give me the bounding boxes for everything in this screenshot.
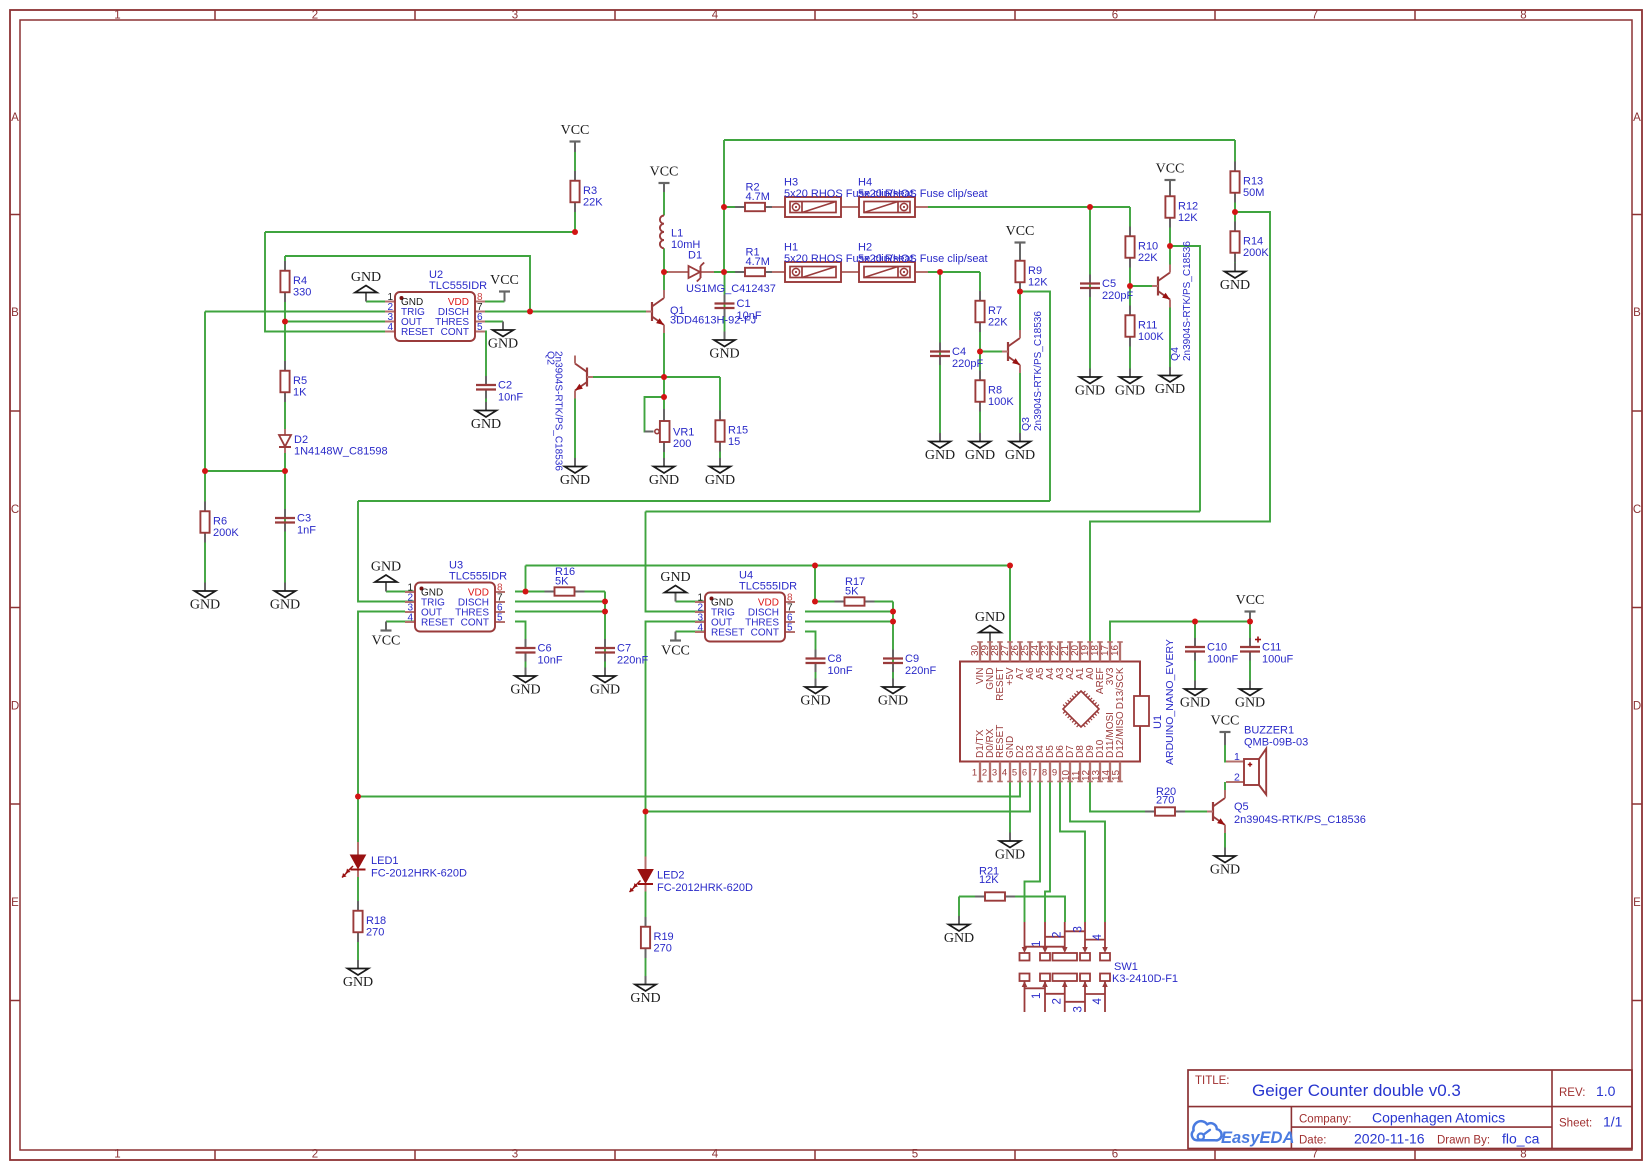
wire — [719, 377, 721, 458]
svg-text:100K: 100K — [988, 396, 1014, 408]
svg-text:C: C — [11, 504, 19, 516]
svg-text:C5: C5 — [1102, 278, 1116, 290]
wire — [815, 668, 817, 679]
power VCC — [372, 622, 401, 649]
svg-text:VCC: VCC — [661, 644, 690, 659]
svg-text:VCC: VCC — [1236, 593, 1265, 608]
svg-text:2: 2 — [1052, 998, 1064, 1004]
svg-text:US1MG_C412437: US1MG_C412437 — [686, 283, 776, 295]
pin 5 — [1019, 762, 1021, 782]
capacitor C1 — [715, 295, 762, 323]
power VCC — [1006, 224, 1035, 252]
pin 20 — [1079, 642, 1081, 662]
svg-text:VR1: VR1 — [673, 427, 694, 439]
svg-text:1: 1 — [114, 1149, 120, 1161]
pin 2 — [989, 762, 991, 782]
ground — [705, 458, 735, 488]
ground — [560, 458, 590, 488]
transistor Q3 — [1002, 311, 1044, 431]
wire — [1090, 212, 1270, 643]
transistor Q2 — [545, 351, 594, 471]
svg-text:GND: GND — [1235, 696, 1265, 711]
power VCC — [561, 123, 590, 152]
svg-text:QMB-09B-03: QMB-09B-03 — [1244, 737, 1308, 749]
capacitor C2 — [476, 376, 523, 404]
wire — [358, 782, 1020, 797]
resistor R9 — [1015, 251, 1048, 292]
junction — [1017, 289, 1023, 295]
wire — [664, 376, 720, 378]
LED LED1 — [342, 842, 467, 880]
transistor Q4 — [1152, 241, 1193, 361]
wire — [841, 206, 859, 208]
wire — [1169, 300, 1171, 368]
junction — [812, 563, 818, 569]
svg-text:R10: R10 — [1138, 241, 1158, 253]
555 timer U3 — [405, 560, 507, 632]
pin 23 — [1049, 642, 1051, 662]
svg-text:GND: GND — [630, 991, 660, 1006]
switch SW1 K3-2410D-F1 — [1020, 922, 1179, 1013]
svg-text:C7: C7 — [617, 643, 631, 655]
svg-text:2n3904S-RTK/PS_C18536: 2n3904S-RTK/PS_C18536 — [1234, 814, 1366, 826]
capacitor C11 — [1240, 637, 1293, 666]
svg-text:Copenhagen Atomics: Copenhagen Atomics — [1372, 1110, 1505, 1126]
junction — [572, 229, 578, 235]
svg-text:1/1: 1/1 — [1603, 1114, 1623, 1130]
wire — [285, 256, 530, 312]
svg-text:VCC: VCC — [561, 123, 590, 138]
wire — [663, 272, 665, 298]
wire — [485, 332, 486, 377]
wire — [676, 631, 706, 633]
svg-text:R12: R12 — [1178, 201, 1198, 213]
svg-text:220pF: 220pF — [1102, 290, 1133, 302]
wire — [815, 601, 893, 603]
ground — [800, 679, 830, 709]
svg-text:R14: R14 — [1243, 236, 1263, 248]
svg-text:1K: 1K — [293, 387, 307, 399]
svg-text:GND: GND — [1155, 382, 1185, 397]
ground — [1235, 681, 1265, 711]
svg-text:1: 1 — [1234, 751, 1240, 763]
svg-text:GND: GND — [190, 598, 220, 613]
svg-text:GND: GND — [660, 570, 690, 585]
svg-text:R18: R18 — [366, 915, 386, 927]
resistor R17 — [835, 576, 875, 606]
ground — [371, 560, 401, 592]
resistor R16 — [545, 566, 585, 596]
EasyEDA logo — [1192, 1121, 1295, 1147]
svg-text:Q3: Q3 — [1020, 417, 1032, 431]
wire — [1129, 207, 1131, 369]
svg-text:GND: GND — [944, 931, 974, 946]
svg-text:4: 4 — [1092, 934, 1104, 941]
svg-text:3: 3 — [512, 10, 518, 22]
ground — [190, 583, 220, 613]
wire — [663, 248, 665, 272]
svg-text:Geiger Counter double v0.3: Geiger Counter double v0.3 — [1252, 1081, 1461, 1100]
ground — [709, 332, 739, 362]
wire — [980, 351, 1008, 353]
svg-text:12K: 12K — [1028, 277, 1048, 289]
wire — [285, 321, 385, 323]
svg-text:220pF: 220pF — [952, 358, 983, 370]
pin 22 — [1059, 642, 1061, 662]
svg-text:A: A — [11, 112, 19, 124]
junction — [661, 269, 667, 275]
junction — [890, 609, 896, 615]
svg-text:GND: GND — [1220, 278, 1250, 293]
resistor R19 — [641, 917, 674, 958]
svg-text:2: 2 — [982, 768, 987, 779]
pin 10 — [1069, 762, 1071, 782]
svg-text:REV:: REV: — [1559, 1087, 1585, 1099]
svg-text:3: 3 — [512, 1149, 518, 1161]
ground — [1180, 681, 1210, 711]
wire — [525, 566, 527, 592]
555 timer U2 — [385, 269, 487, 341]
svg-text:2020-11-16: 2020-11-16 — [1354, 1131, 1425, 1147]
ground — [944, 916, 974, 946]
resistor R3 — [570, 171, 603, 212]
pin 25 — [1029, 642, 1031, 662]
wire — [386, 621, 415, 623]
svg-text:GND: GND — [1075, 384, 1105, 399]
pin 24 — [1039, 642, 1041, 662]
ground — [878, 679, 908, 709]
wire — [1060, 782, 1085, 923]
pin 28 — [999, 642, 1001, 662]
wire — [205, 311, 385, 313]
pin 18 — [1099, 642, 1101, 662]
svg-text:VCC: VCC — [372, 634, 401, 649]
wire — [366, 301, 395, 303]
pin 8 — [1049, 762, 1051, 782]
fuse holder H2 — [846, 242, 988, 283]
wire — [1249, 652, 1251, 681]
svg-text:TITLE:: TITLE: — [1195, 1075, 1230, 1087]
svg-text:100nF: 100nF — [1207, 654, 1238, 666]
wire — [204, 312, 206, 583]
svg-text:U1: U1 — [1152, 715, 1164, 729]
junction — [202, 468, 208, 474]
svg-text:C4: C4 — [952, 346, 966, 358]
svg-text:E: E — [11, 897, 19, 909]
capacitor C4 — [930, 343, 983, 371]
wire — [663, 452, 665, 458]
resistor R20 — [1145, 786, 1185, 816]
wire — [1170, 246, 1200, 512]
pin 27 — [1009, 642, 1011, 662]
ground — [351, 270, 381, 302]
inductor L1 — [660, 216, 700, 252]
svg-text:BUZZER1: BUZZER1 — [1244, 725, 1294, 737]
svg-text:C9: C9 — [905, 653, 919, 665]
LED LED2 — [630, 857, 754, 895]
svg-text:GND: GND — [471, 417, 501, 432]
svg-text:C3: C3 — [297, 513, 311, 525]
ground — [343, 960, 373, 990]
wire — [724, 272, 726, 332]
svg-text:2: 2 — [312, 1149, 318, 1161]
wire — [1224, 825, 1226, 848]
resistor R5 — [280, 361, 307, 402]
junction — [1192, 619, 1198, 625]
svg-text:5: 5 — [1012, 768, 1017, 779]
wire — [574, 359, 576, 364]
ground — [590, 668, 620, 698]
junction — [643, 809, 649, 815]
wire — [386, 591, 415, 593]
transistor Q1 — [646, 290, 756, 333]
wire — [485, 311, 652, 313]
resistor R2 — [735, 182, 775, 212]
capacitor C9 — [883, 650, 936, 678]
svg-text:D: D — [11, 701, 19, 713]
svg-text:270: 270 — [654, 943, 672, 955]
svg-text:220nF: 220nF — [617, 655, 648, 667]
svg-text:GND: GND — [351, 270, 381, 285]
fuse holder H3 — [772, 177, 914, 218]
svg-text:GND: GND — [270, 598, 300, 613]
svg-text:6: 6 — [1112, 10, 1118, 22]
wire — [1234, 140, 1236, 263]
wire — [485, 321, 503, 323]
svg-text:R4: R4 — [293, 275, 307, 287]
svg-text:3: 3 — [1073, 1006, 1085, 1012]
wire — [724, 206, 785, 208]
ground — [1155, 367, 1185, 397]
svg-text:VCC: VCC — [1006, 224, 1035, 239]
svg-text:LED2: LED2 — [657, 870, 685, 882]
svg-text:22K: 22K — [583, 197, 603, 209]
svg-text:SW1: SW1 — [1114, 961, 1138, 973]
svg-text:Q5: Q5 — [1234, 801, 1249, 813]
wire — [805, 632, 816, 651]
svg-text:B: B — [11, 307, 19, 319]
svg-text:Q4: Q4 — [1169, 347, 1181, 361]
wire — [485, 301, 505, 303]
fuse holder H4 — [846, 177, 988, 218]
svg-text:16: 16 — [1110, 644, 1121, 656]
svg-text:22K: 22K — [988, 317, 1008, 329]
svg-text:5: 5 — [497, 613, 503, 624]
fuse holder H1 — [772, 242, 914, 283]
svg-text:4: 4 — [697, 623, 703, 634]
pin 12 — [1089, 762, 1091, 782]
svg-text:6: 6 — [1022, 768, 1027, 779]
svg-text:GND: GND — [1180, 696, 1210, 711]
svg-text:3: 3 — [1073, 926, 1085, 932]
resistor R14 — [1230, 222, 1269, 263]
svg-text:H3: H3 — [784, 177, 798, 189]
svg-text:CONT: CONT — [441, 327, 469, 338]
junction — [1087, 204, 1093, 210]
svg-text:A: A — [1633, 112, 1641, 124]
junction — [812, 599, 818, 605]
svg-text:R8: R8 — [988, 385, 1002, 397]
svg-text:8: 8 — [1520, 1149, 1526, 1161]
wire — [676, 601, 706, 603]
svg-text:VCC: VCC — [650, 165, 679, 180]
wire — [265, 231, 575, 233]
svg-text:GND: GND — [965, 448, 995, 463]
svg-text:2n3904S-RTK/PS_C18536: 2n3904S-RTK/PS_C18536 — [1182, 241, 1193, 361]
svg-text:D12/MISO: D12/MISO — [1115, 711, 1126, 758]
junction — [1007, 563, 1013, 569]
capacitor C10 — [1185, 638, 1238, 666]
wire — [358, 612, 405, 853]
wire — [959, 897, 1065, 923]
svg-text:D13/SCK: D13/SCK — [1115, 667, 1126, 709]
wire — [1019, 243, 1021, 339]
wire — [1009, 782, 1011, 833]
junction — [282, 468, 288, 474]
svg-text:1.0: 1.0 — [1596, 1083, 1616, 1099]
svg-text:C10: C10 — [1207, 642, 1227, 654]
svg-text:270: 270 — [366, 927, 384, 939]
junction — [977, 349, 983, 355]
transistor Q5 — [1207, 790, 1366, 833]
svg-text:RESET: RESET — [401, 327, 434, 338]
svg-text:EasyEDA: EasyEDA — [1221, 1129, 1294, 1147]
svg-text:4: 4 — [1002, 768, 1007, 779]
ground — [1220, 263, 1250, 293]
ground — [1210, 848, 1240, 878]
svg-text:TLC555IDR: TLC555IDR — [429, 280, 487, 292]
svg-text:Company:: Company: — [1299, 1114, 1351, 1126]
svg-text:VCC: VCC — [1156, 162, 1185, 177]
svg-text:100uF: 100uF — [1262, 654, 1293, 666]
resistor R10 — [1125, 227, 1158, 268]
junction — [1232, 209, 1238, 215]
svg-text:15: 15 — [728, 436, 740, 448]
junction — [282, 319, 288, 325]
wire — [526, 565, 1011, 567]
wire — [515, 611, 605, 613]
capacitor C3 — [275, 509, 316, 537]
svg-text:GND: GND — [878, 694, 908, 709]
wire — [284, 256, 286, 583]
svg-text:GND: GND — [1005, 448, 1035, 463]
svg-text:2: 2 — [1234, 772, 1240, 784]
svg-text:1: 1 — [1031, 993, 1043, 999]
pin 13 — [1099, 762, 1101, 782]
wire — [515, 601, 605, 603]
ground — [995, 833, 1025, 863]
svg-text:H1: H1 — [784, 242, 798, 254]
resistor R8 — [975, 371, 1014, 412]
wire — [915, 206, 1130, 208]
wire — [841, 271, 859, 273]
pin 30 — [979, 642, 981, 662]
svg-text:4: 4 — [407, 613, 413, 624]
wire — [1070, 782, 1105, 923]
svg-text:Sheet:: Sheet: — [1559, 1118, 1592, 1130]
svg-text:7: 7 — [1312, 10, 1318, 22]
svg-text:1nF: 1nF — [297, 525, 316, 537]
pin 21 — [1069, 642, 1071, 662]
wire — [646, 782, 1031, 812]
svg-text:LED1: LED1 — [371, 855, 399, 867]
wire — [663, 325, 665, 411]
svg-text:GND: GND — [1115, 384, 1145, 399]
svg-text:FC-2012HRK-620D: FC-2012HRK-620D — [371, 868, 467, 880]
svg-text:GND: GND — [371, 560, 401, 575]
wire — [724, 139, 1235, 141]
resistor R6 — [200, 502, 239, 543]
wire — [1110, 622, 1250, 643]
pin 17 — [1109, 642, 1111, 662]
svg-text:Drawn By:: Drawn By: — [1437, 1135, 1490, 1147]
svg-text:8: 8 — [1520, 10, 1526, 22]
svg-text:R3: R3 — [583, 185, 597, 197]
svg-text:2: 2 — [1052, 932, 1064, 938]
wire — [939, 272, 941, 433]
ground — [975, 610, 1005, 642]
junction — [937, 269, 943, 275]
junction — [523, 589, 529, 595]
svg-text:R7: R7 — [988, 305, 1002, 317]
svg-text:270: 270 — [1156, 795, 1174, 807]
wire — [805, 611, 893, 613]
diode D1 — [668, 250, 776, 296]
svg-text:10nF: 10nF — [538, 655, 563, 667]
pin 7 — [1039, 762, 1041, 782]
svg-text:FC-2012HRK-620D: FC-2012HRK-620D — [657, 882, 753, 894]
resistor R12 — [1165, 187, 1198, 228]
wire — [1009, 566, 1011, 643]
ground — [510, 668, 540, 698]
pin 29 — [989, 642, 991, 662]
pin 14 — [1109, 762, 1111, 782]
resistor R13 — [1230, 162, 1264, 203]
wire — [265, 232, 385, 332]
555 timer U4 — [695, 570, 797, 642]
svg-text:220nF: 220nF — [905, 665, 936, 677]
diode D2 — [279, 429, 388, 458]
capacitor C5 — [1080, 275, 1133, 303]
pin 6 — [1029, 762, 1031, 782]
svg-text:200: 200 — [673, 438, 691, 450]
svg-text:15: 15 — [1111, 769, 1122, 781]
svg-text:GND: GND — [995, 848, 1025, 863]
svg-text:50M: 50M — [1243, 187, 1264, 199]
svg-text:D2: D2 — [294, 434, 308, 446]
resistor R7 — [975, 291, 1008, 332]
wire — [645, 397, 665, 432]
power VCC — [661, 632, 690, 659]
pin 4 — [1009, 762, 1011, 782]
svg-text:GND: GND — [649, 473, 679, 488]
svg-text:10nF: 10nF — [498, 392, 523, 404]
svg-text:4.7M: 4.7M — [746, 256, 770, 268]
junction — [661, 374, 667, 380]
ground — [965, 433, 995, 463]
svg-text:3DD4613H-92-FJ: 3DD4613H-92-FJ — [670, 315, 756, 327]
svg-text:RESET: RESET — [421, 618, 454, 629]
svg-text:R9: R9 — [1028, 265, 1042, 277]
junction — [355, 794, 361, 800]
buzzer BUZZER1 — [1226, 725, 1308, 795]
wire — [646, 622, 706, 867]
junction — [1247, 619, 1253, 625]
wire — [574, 391, 576, 459]
svg-text:4: 4 — [387, 322, 393, 333]
svg-text:B: B — [1633, 307, 1641, 319]
svg-text:1: 1 — [114, 10, 120, 22]
